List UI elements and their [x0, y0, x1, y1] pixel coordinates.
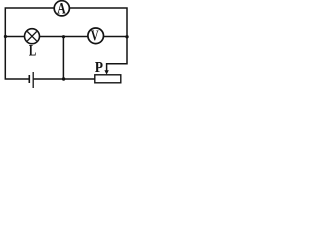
node: left junction [4, 35, 7, 38]
lamp circle [25, 29, 40, 44]
node: bottom junction [62, 77, 65, 80]
wire: middle branch right segment [103, 36, 127, 38]
lamp X diagonal 1 [27, 32, 36, 41]
wire: top-right + right vertical + slider horizontal [70, 8, 127, 64]
voltmeter V circle [88, 28, 104, 44]
wire: left vertical + top-left + bottom-left run [5, 8, 54, 79]
wire: middle branch center segment [39, 36, 88, 38]
voltmeter V letter [91, 30, 99, 40]
lamp X diagonal 2 [27, 32, 36, 41]
rheostat label P [95, 62, 103, 72]
rheostat slider wire [106, 63, 108, 72]
wire: middle vertical (junction to bottom) [62, 37, 64, 80]
ammeter A circle [54, 1, 69, 16]
battery long plate [32, 72, 34, 88]
wire: bottom segment battery to rheostat [34, 78, 95, 80]
ammeter A letter [57, 3, 65, 13]
node: right junction [125, 35, 128, 38]
lamp label L [29, 45, 36, 56]
wire: middle branch left segment [5, 36, 25, 38]
node: middle junction [62, 35, 65, 38]
rheostat slider arrowhead [104, 70, 108, 74]
rheostat box P [95, 75, 121, 83]
battery short plate [28, 75, 30, 83]
